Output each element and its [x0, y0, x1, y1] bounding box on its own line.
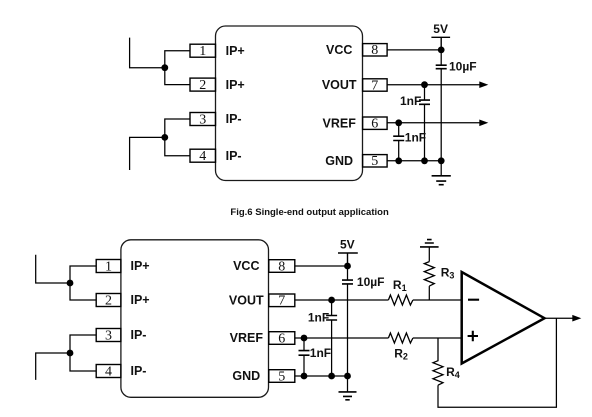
U1 pin 8 [363, 43, 388, 58]
wire input stub IP- (bottom) [36, 353, 70, 380]
svg-text:1nF: 1nF [308, 311, 329, 325]
svg-text:5: 5 [371, 154, 378, 169]
node dot VCC/5V (top) [438, 47, 445, 54]
svg-text:8: 8 [278, 259, 285, 274]
svg-text:1nF: 1nF [310, 346, 331, 360]
supply 5V (bottom) [338, 238, 358, 266]
U2 pin 1 [96, 259, 121, 274]
svg-text:1: 1 [105, 259, 112, 274]
svg-text:7: 7 [371, 78, 378, 93]
svg-text:IP-: IP- [226, 149, 242, 163]
wire VREF row to R2 [295, 337, 389, 339]
svg-text:GND: GND [325, 154, 353, 168]
wire R2 to op-amp plus input [413, 337, 461, 339]
wire U2 pin1 to left bus [70, 266, 96, 283]
IC U2 body [121, 240, 269, 397]
svg-text:7: 7 [278, 294, 285, 309]
node dot IP- bus (bottom) [67, 350, 74, 357]
wire R1 to op-amp minus input [413, 299, 461, 301]
U2 pin 6 [269, 331, 295, 346]
svg-text:IP+: IP+ [131, 293, 150, 307]
wire op-amp output with arrow [545, 315, 582, 322]
svg-text:IP-: IP- [226, 112, 242, 126]
node dot VREF/C6 [301, 335, 308, 342]
svg-text:Fig.6 Single-end output applic: Fig.6 Single-end output application [230, 207, 389, 218]
wire input stub IP+ (top) [130, 38, 165, 68]
wire U2 pin8 VCC to 5V node [295, 265, 348, 267]
svg-text:5V: 5V [433, 22, 448, 36]
node dot IP+ bus (bottom) [67, 280, 74, 287]
svg-text:6: 6 [278, 331, 285, 346]
U1 pin 2 [190, 78, 216, 93]
wire input stub IP+ (bottom) [36, 255, 70, 283]
wire U1 pin3 to left bus [165, 119, 190, 137]
wire U2 pin4 to left bus [70, 353, 96, 371]
U2 pin 2 [96, 293, 121, 308]
node dot GND/C1 [438, 157, 445, 164]
node dot GND/C2 [421, 157, 428, 164]
capacitor C5 1nF [308, 300, 337, 376]
node dot VOUT/C2 [421, 81, 428, 88]
U1 pin 1 [190, 44, 216, 59]
wire VREF output with arrow [387, 120, 488, 127]
node dot IP- bus (top) [161, 134, 168, 141]
U1 pin 4 [190, 149, 216, 164]
resistor R2 [388, 333, 413, 362]
svg-text:VOUT: VOUT [322, 78, 357, 92]
wire U2 pin3 to left bus [70, 335, 96, 353]
svg-text:5: 5 [278, 369, 285, 384]
node dot VREF/C3 [395, 119, 402, 126]
svg-text:1nF: 1nF [405, 130, 426, 144]
svg-text:IP-: IP- [131, 364, 147, 378]
U2 pin 3 [96, 328, 121, 343]
svg-text:1nF: 1nF [400, 94, 421, 108]
svg-text:VREF: VREF [323, 116, 357, 130]
capacitor C3 1nF [393, 123, 426, 161]
U1 pin 6 [363, 117, 388, 132]
svg-text:VCC: VCC [326, 43, 352, 57]
node dot GND/C3 [395, 157, 402, 164]
wire U1 pin2 to left bus [165, 68, 190, 85]
U1 pin 5 [363, 154, 388, 169]
wire GND row (top) [387, 160, 441, 162]
svg-text:GND: GND [232, 369, 260, 383]
svg-text:6: 6 [371, 117, 378, 132]
node dot VCC/5V (bottom) [344, 263, 351, 270]
svg-text:VOUT: VOUT [229, 294, 264, 308]
resistor R4 [433, 338, 460, 385]
svg-text:4: 4 [199, 149, 206, 164]
svg-text:IP-: IP- [131, 328, 147, 342]
node dot IP+ bus (top) [161, 64, 168, 71]
svg-text:IP+: IP+ [226, 44, 245, 58]
svg-text:5V: 5V [340, 238, 355, 252]
wire U2 pin2 to left bus [70, 283, 96, 300]
capacitor C4 10µF [342, 266, 384, 376]
ground (top circuit) [432, 161, 451, 185]
svg-text:VCC: VCC [233, 259, 259, 273]
svg-text:3: 3 [105, 328, 112, 343]
svg-text:10µF: 10µF [357, 275, 385, 289]
ground above R3 (inverted) [420, 240, 439, 262]
svg-text:2: 2 [105, 293, 112, 308]
resistor R3 [424, 262, 454, 287]
node dot GND/C6 [301, 373, 308, 380]
node dot GND/C5 [328, 373, 335, 380]
U2 pin 7 [269, 294, 295, 309]
wire U1 pin1 to left bus [165, 51, 190, 68]
supply 5V (top) [431, 22, 450, 50]
U2 pin 8 [269, 259, 295, 274]
resistor R1 [388, 278, 413, 305]
node dot GND/C4 [344, 373, 351, 380]
U2 pin 5 [269, 369, 295, 384]
svg-text:2: 2 [199, 78, 206, 93]
svg-text:VREF: VREF [230, 331, 264, 345]
svg-text:IP+: IP+ [131, 259, 150, 273]
wire R3 to minus input node [428, 286, 430, 300]
wire U1 pin8 VCC to 5V node [387, 49, 441, 51]
capacitor C1 10µF [436, 50, 477, 161]
svg-text:8: 8 [371, 43, 378, 58]
op-amp U3 [462, 272, 545, 364]
svg-text:3: 3 [199, 112, 206, 127]
IC U1 body [216, 26, 363, 181]
wire GND row (bottom) [295, 375, 348, 377]
wire VOUT output with arrow [387, 81, 488, 88]
node dot VOUT/C5 [328, 297, 335, 304]
U1 pin 7 [363, 78, 388, 93]
ground (bottom circuit) [339, 376, 357, 400]
wire input stub IP- (top) [130, 137, 165, 170]
svg-text:IP+: IP+ [226, 78, 245, 92]
svg-text:4: 4 [105, 364, 112, 379]
wire R4 bottom to feedback [438, 318, 556, 407]
U1 pin 3 [190, 112, 216, 127]
capacitor C2 1nF [400, 85, 430, 161]
wire U1 pin4 to left bus [165, 137, 190, 155]
U2 pin 4 [96, 364, 121, 379]
svg-text:10µF: 10µF [449, 60, 477, 74]
wire VOUT row to R1 [295, 299, 389, 301]
capacitor C6 1nF [299, 338, 332, 376]
svg-text:1: 1 [199, 44, 206, 59]
